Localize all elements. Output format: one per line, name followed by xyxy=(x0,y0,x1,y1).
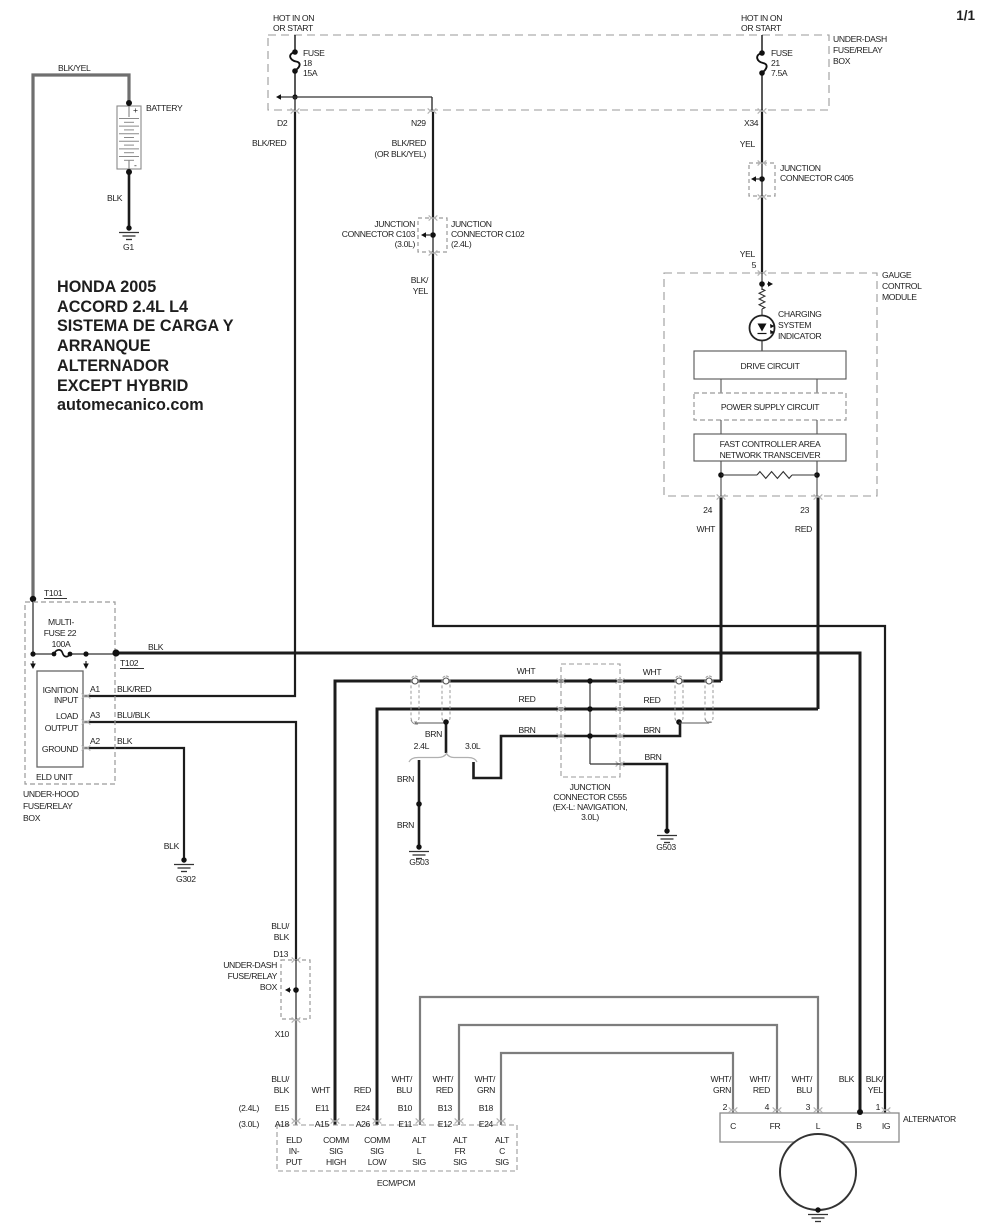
svg-text:BRN: BRN xyxy=(643,725,660,735)
svg-text:B: B xyxy=(856,1121,862,1131)
svg-text:15A: 15A xyxy=(303,68,318,78)
svg-text:BOX: BOX xyxy=(833,56,851,66)
svg-text:100A: 100A xyxy=(52,639,71,649)
svg-text:FUSE/RELAY: FUSE/RELAY xyxy=(833,45,883,55)
svg-text:CONNECTOR C103: CONNECTOR C103 xyxy=(342,229,416,239)
svg-text:ALT: ALT xyxy=(453,1135,468,1145)
svg-text:1: 1 xyxy=(876,1102,881,1112)
svg-text:FUSE/RELAY: FUSE/RELAY xyxy=(23,801,73,811)
svg-text:T101: T101 xyxy=(44,588,63,598)
svg-text:RED: RED xyxy=(354,1085,371,1095)
svg-text:BLK: BLK xyxy=(274,1085,290,1095)
svg-text:ALT: ALT xyxy=(495,1135,510,1145)
svg-text:18: 18 xyxy=(303,58,312,68)
svg-text:COMM: COMM xyxy=(323,1135,349,1145)
svg-text:X10: X10 xyxy=(275,1029,290,1039)
svg-text:BRN: BRN xyxy=(644,752,661,762)
svg-text:BLU: BLU xyxy=(396,1085,412,1095)
svg-text:FR: FR xyxy=(455,1146,466,1156)
svg-text:G1: G1 xyxy=(123,242,134,252)
svg-text:CONTROL: CONTROL xyxy=(882,281,922,291)
svg-text:BRN: BRN xyxy=(518,725,535,735)
svg-text:PUT: PUT xyxy=(286,1157,303,1167)
svg-text:IG: IG xyxy=(882,1121,891,1131)
svg-text:BLK: BLK xyxy=(839,1074,855,1084)
svg-text:SYSTEM: SYSTEM xyxy=(778,320,811,330)
svg-text:ARRANQUE: ARRANQUE xyxy=(57,337,151,355)
svg-text:BLK/RED: BLK/RED xyxy=(392,138,426,148)
svg-text:L: L xyxy=(417,1146,422,1156)
svg-text:GRN: GRN xyxy=(713,1085,731,1095)
svg-text:21: 21 xyxy=(771,58,780,68)
svg-text:YEL: YEL xyxy=(868,1085,884,1095)
svg-text:BLK/RED: BLK/RED xyxy=(252,138,286,148)
svg-text:A1: A1 xyxy=(90,684,100,694)
svg-text:RED: RED xyxy=(518,694,535,704)
svg-text:BLK: BLK xyxy=(117,736,133,746)
svg-text:2: 2 xyxy=(723,1102,728,1112)
svg-text:4: 4 xyxy=(765,1102,770,1112)
svg-text:WHT: WHT xyxy=(696,524,716,534)
svg-text:BLK: BLK xyxy=(274,932,290,942)
svg-text:WHT: WHT xyxy=(517,666,537,676)
svg-text:IN-: IN- xyxy=(289,1146,300,1156)
svg-text:BLU/BLK: BLU/BLK xyxy=(117,710,151,720)
svg-text:SIG: SIG xyxy=(412,1157,426,1167)
svg-text:FUSE: FUSE xyxy=(303,48,325,58)
svg-text:OR START: OR START xyxy=(273,23,314,33)
svg-text:BOX: BOX xyxy=(260,982,278,992)
svg-text:HONDA 2005: HONDA 2005 xyxy=(57,278,156,296)
svg-text:OUTPUT: OUTPUT xyxy=(45,723,79,733)
svg-text:BRN: BRN xyxy=(425,729,442,739)
svg-text:BOX: BOX xyxy=(23,813,41,823)
svg-text:D2: D2 xyxy=(277,118,288,128)
svg-text:FUSE: FUSE xyxy=(771,48,793,58)
svg-text:3: 3 xyxy=(806,1102,811,1112)
svg-text:JUNCTION: JUNCTION xyxy=(451,219,492,229)
svg-text:SIG: SIG xyxy=(370,1146,384,1156)
svg-text:MULTI-: MULTI- xyxy=(48,617,74,627)
svg-text:BLU: BLU xyxy=(796,1085,812,1095)
svg-text:BRN: BRN xyxy=(397,820,414,830)
svg-text:FUSE 22: FUSE 22 xyxy=(44,628,77,638)
svg-text:ELD: ELD xyxy=(286,1135,302,1145)
svg-text:LOW: LOW xyxy=(368,1157,388,1167)
svg-text:(3.0L): (3.0L) xyxy=(395,239,416,249)
svg-text:HOT IN ON: HOT IN ON xyxy=(741,13,782,23)
svg-text:E12: E12 xyxy=(438,1119,453,1129)
svg-text:BATTERY: BATTERY xyxy=(146,103,183,113)
svg-text:MODULE: MODULE xyxy=(882,292,917,302)
svg-text:E15: E15 xyxy=(275,1103,290,1113)
svg-text:SIG: SIG xyxy=(329,1146,343,1156)
svg-text:HOT IN ON: HOT IN ON xyxy=(273,13,314,23)
svg-text:JUNCTION: JUNCTION xyxy=(780,163,821,173)
svg-text:FUSE/RELAY: FUSE/RELAY xyxy=(228,971,278,981)
svg-text:UNDER-DASH: UNDER-DASH xyxy=(223,960,277,970)
svg-text:CONNECTOR C102: CONNECTOR C102 xyxy=(451,229,525,239)
svg-text:E11: E11 xyxy=(315,1103,329,1113)
svg-text:(2.4L): (2.4L) xyxy=(451,239,472,249)
svg-text:DRIVE CIRCUIT: DRIVE CIRCUIT xyxy=(741,361,801,371)
svg-text:BLK/: BLK/ xyxy=(866,1074,884,1084)
svg-text:N29: N29 xyxy=(411,118,426,128)
svg-text:RED: RED xyxy=(795,524,812,534)
svg-text:GROUND: GROUND xyxy=(42,744,78,754)
svg-text:RED: RED xyxy=(436,1085,453,1095)
svg-text:D13: D13 xyxy=(273,949,288,959)
svg-text:BRN: BRN xyxy=(397,774,414,784)
svg-text:JUNCTION: JUNCTION xyxy=(374,219,415,229)
svg-text:BLK: BLK xyxy=(107,193,123,203)
svg-text:WHT: WHT xyxy=(311,1085,331,1095)
svg-text:CHARGING: CHARGING xyxy=(778,309,822,319)
svg-text:G503: G503 xyxy=(409,857,429,867)
svg-text:BLK: BLK xyxy=(164,841,180,851)
svg-text:7.5A: 7.5A xyxy=(771,68,788,78)
svg-text:T102: T102 xyxy=(120,658,139,668)
svg-text:JUNCTION: JUNCTION xyxy=(570,782,611,792)
svg-text:+: + xyxy=(133,105,138,115)
svg-text:1/1: 1/1 xyxy=(956,8,975,23)
svg-text:ECM/PCM: ECM/PCM xyxy=(377,1178,415,1188)
svg-text:5: 5 xyxy=(752,260,757,270)
svg-text:A15: A15 xyxy=(315,1119,330,1129)
svg-text:ALTERNADOR: ALTERNADOR xyxy=(57,357,169,375)
svg-text:EXCEPT HYBRID: EXCEPT HYBRID xyxy=(57,377,189,395)
svg-text:2.4L: 2.4L xyxy=(414,741,430,751)
svg-text:POWER SUPPLY CIRCUIT: POWER SUPPLY CIRCUIT xyxy=(721,402,820,412)
svg-text:G302: G302 xyxy=(176,874,196,884)
svg-text:RED: RED xyxy=(753,1085,770,1095)
svg-text:23: 23 xyxy=(800,505,809,515)
svg-text:FR: FR xyxy=(770,1121,781,1131)
svg-text:ACCORD 2.4L L4: ACCORD 2.4L L4 xyxy=(57,298,188,316)
svg-text:WHT/: WHT/ xyxy=(791,1074,813,1084)
svg-text:WHT/: WHT/ xyxy=(710,1074,732,1084)
svg-text:UNDER-DASH: UNDER-DASH xyxy=(833,34,887,44)
svg-text:NETWORK TRANSCEIVER: NETWORK TRANSCEIVER xyxy=(720,450,821,460)
svg-text:(OR BLK/YEL): (OR BLK/YEL) xyxy=(374,149,426,159)
svg-text:WHT/: WHT/ xyxy=(749,1074,771,1084)
svg-text:E11: E11 xyxy=(398,1119,412,1129)
svg-text:RED: RED xyxy=(643,695,660,705)
svg-text:WHT/: WHT/ xyxy=(432,1074,454,1084)
svg-text:(2.4L): (2.4L) xyxy=(239,1103,260,1113)
svg-text:BLK/YEL: BLK/YEL xyxy=(58,63,91,73)
svg-text:YEL: YEL xyxy=(740,139,756,149)
svg-text:A2: A2 xyxy=(90,736,100,746)
svg-text:COMM: COMM xyxy=(364,1135,390,1145)
svg-text:B13: B13 xyxy=(438,1103,453,1113)
svg-text:CONNECTOR C405: CONNECTOR C405 xyxy=(780,173,854,183)
svg-text:automecanico.com: automecanico.com xyxy=(57,396,204,414)
svg-text:ELD UNIT: ELD UNIT xyxy=(36,772,73,782)
svg-text:L: L xyxy=(816,1121,821,1131)
svg-text:X34: X34 xyxy=(744,118,759,128)
svg-text:C: C xyxy=(730,1121,736,1131)
svg-text:E24: E24 xyxy=(479,1119,494,1129)
svg-text:C: C xyxy=(499,1146,505,1156)
svg-text:A26: A26 xyxy=(356,1119,371,1129)
svg-text:HIGH: HIGH xyxy=(326,1157,346,1167)
svg-text:SISTEMA DE CARGA Y: SISTEMA DE CARGA Y xyxy=(57,317,234,335)
svg-text:E24: E24 xyxy=(356,1103,371,1113)
svg-text:FAST CONTROLLER AREA: FAST CONTROLLER AREA xyxy=(720,439,821,449)
svg-text:CONNECTOR C555: CONNECTOR C555 xyxy=(553,792,627,802)
svg-text:WHT/: WHT/ xyxy=(391,1074,413,1084)
svg-text:YEL: YEL xyxy=(740,249,756,259)
svg-text:24: 24 xyxy=(703,505,712,515)
svg-text:BLK/RED: BLK/RED xyxy=(117,684,151,694)
svg-text:BLK: BLK xyxy=(148,642,164,652)
svg-text:ALT: ALT xyxy=(412,1135,427,1145)
svg-text:(3.0L): (3.0L) xyxy=(239,1119,260,1129)
svg-text:SIG: SIG xyxy=(453,1157,467,1167)
svg-text:INPUT: INPUT xyxy=(54,695,79,705)
svg-text:IGNITION: IGNITION xyxy=(43,685,79,695)
svg-text:WHT/: WHT/ xyxy=(474,1074,496,1084)
svg-text:B10: B10 xyxy=(398,1103,413,1113)
svg-text:3.0L: 3.0L xyxy=(465,741,481,751)
svg-text:WHT: WHT xyxy=(643,667,663,677)
svg-text:A18: A18 xyxy=(275,1119,290,1129)
svg-text:3.0L): 3.0L) xyxy=(581,812,599,822)
svg-text:YEL: YEL xyxy=(413,286,429,296)
svg-text:UNDER-HOOD: UNDER-HOOD xyxy=(23,789,79,799)
svg-text:LOAD: LOAD xyxy=(56,711,78,721)
svg-text:SIG: SIG xyxy=(495,1157,509,1167)
svg-text:BLK/: BLK/ xyxy=(411,275,429,285)
svg-text:(EX-L: NAVIGATION,: (EX-L: NAVIGATION, xyxy=(553,802,628,812)
svg-text:G503: G503 xyxy=(656,842,676,852)
svg-text:A3: A3 xyxy=(90,710,100,720)
svg-text:BLU/: BLU/ xyxy=(271,921,290,931)
svg-text:B18: B18 xyxy=(479,1103,494,1113)
svg-text:ALTERNATOR: ALTERNATOR xyxy=(903,1114,956,1124)
svg-text:GRN: GRN xyxy=(477,1085,495,1095)
svg-text:GAUGE: GAUGE xyxy=(882,270,912,280)
svg-text:OR START: OR START xyxy=(741,23,782,33)
svg-text:INDICATOR: INDICATOR xyxy=(778,331,821,341)
svg-text:BLU/: BLU/ xyxy=(271,1074,290,1084)
